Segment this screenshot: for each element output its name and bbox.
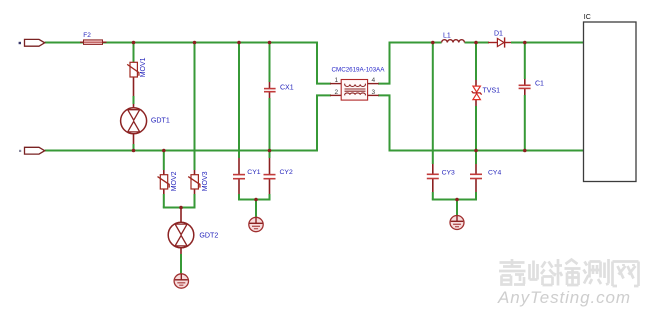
label MOV2 (171, 171, 178, 191)
varistor MOV3 (188, 175, 200, 189)
varistor MOV2 (158, 175, 170, 189)
svg-text:IC: IC (584, 14, 591, 21)
wire: TVS1 branch from top rail (475, 43, 477, 87)
wire: MOV1 to GDT1 (133, 77, 135, 108)
svg-text:MOV1: MOV1 (140, 57, 147, 77)
wire: top rail from D1 to IC (511, 42, 584, 44)
label CMC2619A-103AA (332, 66, 386, 73)
svg-text:D1: D1 (494, 30, 503, 37)
svg-text:L1: L1 (443, 32, 451, 39)
wire: GDT2 to earth (180, 248, 182, 274)
pin lead 1 of choke (330, 83, 341, 85)
node: junction mid rail / GDT1 (132, 149, 136, 153)
label GDT1 (151, 117, 170, 125)
label CY3 (442, 169, 455, 176)
node: J1 port dot (19, 42, 21, 44)
node: junction mid rail / CX1-CY2 (268, 149, 272, 153)
capacitor CX1 (264, 89, 276, 92)
svg-text:MOV3: MOV3 (202, 171, 209, 191)
wire: MOV2 lower lead (163, 189, 165, 208)
label CX1 (280, 84, 294, 91)
watermark: AnyTesting.com (497, 288, 631, 307)
wire: MOV join wire (163, 207, 196, 209)
wire: top rail from connector J1 to fuse (45, 42, 84, 44)
node: junction top rail / TVS1 (474, 41, 478, 45)
svg-text:C1: C1 (535, 81, 544, 88)
earth ground under GDT2 (174, 274, 188, 288)
connector J2 (25, 147, 45, 154)
wire: CY join to earth right (456, 200, 458, 216)
svg-text:4: 4 (372, 77, 376, 84)
svg-text:CY3: CY3 (442, 169, 455, 176)
wire: C1 lower lead to mid rail (524, 88, 526, 150)
pin lead 2 of choke (330, 94, 341, 96)
label IC (584, 14, 591, 21)
wire: top rail between L1 and D1 (465, 42, 490, 44)
gas discharge tube GDT1 (121, 108, 147, 134)
label TVS1 (483, 87, 501, 94)
wire: MOV1 branch from top rail (133, 43, 135, 63)
label F2 (83, 32, 91, 39)
svg-text:F2: F2 (83, 32, 91, 39)
node: junction mid rail / TVS1-CY4 (474, 149, 478, 153)
common-mode choke U1 CMC2619A-103AA (341, 80, 367, 101)
wire: CY3 lower lead (432, 179, 434, 200)
wire: CX1 lower lead to mid rail (269, 92, 271, 151)
pin number 1 (335, 77, 339, 84)
wire: CY1 branch from top rail crossing mid rail (238, 43, 240, 175)
wire: step-down vertical into choke pin 1 (317, 42, 331, 84)
node: junction mid rail / MOV2 (162, 149, 166, 153)
svg-text:CY1: CY1 (247, 169, 260, 176)
label CY1 (247, 169, 260, 176)
node: junction CY1-CY2 / earth (254, 198, 258, 202)
IC block (584, 22, 637, 182)
node: junction CY3-CY4 / earth (455, 198, 459, 202)
wire: CY2 branch from mid rail (269, 151, 271, 175)
svg-text:GDT1: GDT1 (151, 117, 170, 125)
pin number 2 (335, 89, 339, 96)
capacitor CY1 (233, 175, 245, 179)
inductor L1 (442, 40, 465, 43)
fuse F2 (84, 40, 103, 45)
wire: choke pin 3 down to mid rail right section (378, 95, 584, 150)
wire: step-up vertical into choke pin 2 (317, 95, 331, 151)
svg-text:AnyTesting.com: AnyTesting.com (497, 288, 631, 307)
label CY4 (488, 169, 501, 176)
connector J1 (25, 39, 45, 46)
svg-text:TVS1: TVS1 (483, 87, 501, 94)
capacitor CY3 (427, 174, 439, 178)
svg-text:CY4: CY4 (488, 169, 501, 176)
node: junction top rail / MOV3 tap (193, 41, 197, 45)
svg-text:3: 3 (372, 89, 376, 96)
wire: CY1-CY2 join wire (238, 199, 271, 201)
svg-text:CMC2619A-103AA: CMC2619A-103AA (332, 66, 386, 73)
wire: top rail from fuse to left step-down corner (103, 42, 317, 44)
label MOV1 (140, 57, 147, 77)
wire: MOV2 branch from mid rail (163, 151, 165, 175)
gas discharge tube GDT2 (168, 222, 194, 248)
diode D1 (488, 37, 511, 47)
capacitor CY2 (264, 175, 276, 179)
node: junction top rail / MOV1 (132, 41, 136, 45)
node: junction top rail / D1-C1 (523, 41, 527, 45)
capacitor CY4 (470, 174, 482, 178)
pin number 4 (372, 77, 376, 84)
wire: junction to GDT2 (180, 208, 182, 223)
wire: C1 branch upper lead (524, 43, 526, 86)
label C1 (535, 81, 544, 88)
wire: CY3-CY4 join wire (432, 199, 477, 201)
wire: CX1 branch upper lead (269, 43, 271, 89)
svg-text:CX1: CX1 (280, 84, 294, 91)
pin lead 3 of choke (368, 94, 379, 96)
fuse F2 leads (80, 41, 107, 43)
node: junction MOV join / GDT2 (179, 206, 183, 210)
label CY2 (280, 169, 293, 176)
earth ground under CY3/CY4 (450, 216, 464, 230)
node: junction top rail / CX1 (268, 41, 272, 45)
label MOV3 (202, 171, 209, 191)
wire: MOV3 branch from top rail crossing mid rail (194, 43, 196, 175)
node: junction top rail / L1 / CY3 tap (431, 41, 435, 45)
svg-text:MOV2: MOV2 (171, 171, 178, 191)
wire: GDT1 to mid rail (133, 134, 135, 151)
label D1 (494, 30, 503, 37)
wire: CY4 branch from mid rail (475, 151, 477, 175)
svg-text:1: 1 (335, 77, 339, 84)
watermark: 嘉峪检测网 (drawn strokes) (499, 259, 639, 286)
wire: CY4 lower lead (475, 179, 477, 200)
node: junction mid rail / C1 (523, 149, 527, 153)
pin number 3 (372, 89, 376, 96)
wire: choke pin 4 to top rail right section (378, 43, 442, 84)
earth ground under CY1/CY2 (249, 217, 263, 231)
varistor MOV1 (127, 62, 139, 77)
wire: CY3 branch from top rail crossing mid rail (432, 43, 434, 175)
wire: CY1 lower lead (238, 179, 240, 200)
wire: mid rail from connector J2 to left step-up corner (45, 150, 317, 152)
wire: CY join to earth left (255, 200, 257, 218)
pin lead 4 of choke (368, 83, 379, 85)
wire: TVS1 to mid rail (475, 100, 477, 151)
node: junction top rail / CY1 tap (237, 41, 241, 45)
capacitor C1 (519, 85, 531, 88)
node: J2 port dot (19, 150, 21, 152)
svg-text:CY2: CY2 (280, 169, 293, 176)
TVS diode TVS1 (472, 86, 482, 100)
svg-text:2: 2 (335, 89, 339, 96)
svg-text:GDT2: GDT2 (199, 231, 218, 239)
label L1 (443, 32, 451, 39)
wire: CY2 lower lead (269, 179, 271, 200)
wire: MOV3 lower lead (194, 189, 196, 208)
label GDT2 (199, 231, 218, 239)
